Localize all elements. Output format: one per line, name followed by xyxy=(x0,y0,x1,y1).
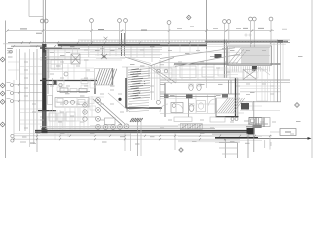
stair mid rail xyxy=(229,55,270,57)
dining table xyxy=(105,118,116,125)
left leader y84.5 xyxy=(14,84,42,86)
left leader y100.8 xyxy=(14,100,42,102)
left-bottom verticals xyxy=(47,96,92,130)
bottom extra horizontals xyxy=(14,126,240,142)
left strip marks xyxy=(7,48,17,80)
stair shaft inner xyxy=(229,47,270,64)
upper corridor line y82.5 xyxy=(160,82,290,84)
left grid bubbles xyxy=(11,84,14,143)
stair treads xyxy=(242,47,268,64)
interior line y60 xyxy=(40,59,122,61)
insulation hatch shaft xyxy=(127,65,152,112)
left diamond text xyxy=(7,83,11,99)
understair hatch xyxy=(230,66,270,71)
left wall verticals xyxy=(20,49,38,152)
top wall hatch ticks xyxy=(58,44,207,46)
column dot xyxy=(118,98,121,101)
lower stair diagonal hatch xyxy=(216,98,245,113)
left-bottom fixtures xyxy=(49,108,80,130)
tick marks pass2 xyxy=(18,41,256,140)
bottom line y127 xyxy=(40,126,258,128)
level marker top xyxy=(187,15,191,19)
texture below shaft xyxy=(129,100,149,112)
cluster extras xyxy=(248,118,268,128)
door arc xyxy=(160,104,168,112)
long vertical x248 xyxy=(247,135,249,158)
interior line y62.5 xyxy=(160,62,238,64)
shaft below xyxy=(257,68,271,102)
terrace line y40 xyxy=(78,39,290,41)
section arrow line xyxy=(258,137,312,140)
poche hatch patch xyxy=(130,118,143,122)
fixture row y90 xyxy=(57,88,90,93)
dark blob left xyxy=(54,80,57,85)
fan symbol xyxy=(101,54,107,59)
left dim vertical xyxy=(13,80,15,141)
dark verticals x236 xyxy=(236,78,238,117)
dimension text marks xyxy=(8,47,303,144)
schedule table verticals xyxy=(225,139,237,158)
upper mid faint verticals xyxy=(180,44,198,52)
X-braced square A xyxy=(71,54,80,64)
interior L-wall xyxy=(126,78,162,108)
sink clutter xyxy=(88,97,104,110)
dim ticks top xyxy=(6,29,272,31)
dark wall y80.5 xyxy=(40,80,97,82)
mid room verticals xyxy=(174,65,230,81)
bottom dim line y139.2 xyxy=(14,138,240,140)
bottom line y136.5 xyxy=(178,136,262,138)
cabinet rect xyxy=(218,68,228,76)
bottom level diamond xyxy=(179,148,183,152)
right wall verticals x278 xyxy=(274,40,283,102)
long diagonal mid xyxy=(153,68,177,84)
left room horizontals xyxy=(20,59,42,109)
facade line y43.8 xyxy=(3,43,90,45)
sheet border left xyxy=(5,21,7,159)
top small cross symbol xyxy=(104,37,108,40)
interior line y50 xyxy=(47,49,160,51)
stair wall pair xyxy=(224,40,226,79)
bottom heavy wall right xyxy=(215,137,258,139)
wall vertical x48 xyxy=(47,49,49,94)
grid bubbles top xyxy=(40,17,273,24)
corridor double line y96.5 xyxy=(160,96,216,98)
bed rect 1 xyxy=(180,66,196,78)
bottom light lines extra xyxy=(20,126,240,142)
stair dark block xyxy=(252,66,257,71)
kitchen small rects xyxy=(48,96,64,105)
bath door arcs xyxy=(176,99,215,111)
schedule table horizontals xyxy=(219,143,238,155)
upper verticals xyxy=(89,33,176,100)
wardrobe rect mid xyxy=(149,68,172,78)
table mid-bottom 1 xyxy=(174,117,192,122)
bottom verticals xyxy=(125,101,270,156)
bottom-left text xyxy=(30,143,36,145)
top-left dark wall xyxy=(40,47,80,49)
bed rect 2 xyxy=(202,67,214,77)
detail box leader xyxy=(265,140,271,148)
dim text top xyxy=(20,28,287,33)
pantry vertical xyxy=(52,78,54,110)
bottom dim line y135.8 xyxy=(14,135,272,137)
grid axis vertical x=206 xyxy=(206,0,208,88)
left interior verticals xyxy=(49,48,78,78)
table mid-bottom 2 xyxy=(210,117,225,122)
left leader y92.5 xyxy=(14,92,42,94)
dining chairs row xyxy=(103,124,129,129)
dim tick marks xyxy=(13,42,282,141)
top facade dark band xyxy=(58,44,207,46)
fixture circle xyxy=(64,72,68,76)
bottom right extra cluster xyxy=(253,118,271,129)
top dimension line xyxy=(8,30,275,32)
bottom wall mid line y134 xyxy=(212,133,248,135)
small circles mid-bottom xyxy=(231,118,238,121)
wc lower xyxy=(189,104,194,112)
wc pair top xyxy=(189,84,201,91)
bath partitions2 xyxy=(160,94,216,114)
left-bottom extra verticals xyxy=(62,117,72,130)
upper mid verticals xyxy=(98,46,152,62)
elevator X square xyxy=(243,70,257,80)
sheet border right xyxy=(311,0,313,158)
dark seg y84.5 xyxy=(47,84,57,86)
bottom line y125 xyxy=(178,124,262,126)
dark cap y116.7 xyxy=(216,98,239,117)
room mid-left lines xyxy=(47,60,94,80)
bath partition verticals xyxy=(189,94,208,117)
detail box right xyxy=(270,129,296,136)
chair dots xyxy=(97,99,127,127)
dark vertical x95 xyxy=(94,80,96,94)
upper light horizontals xyxy=(45,44,286,58)
funnel diagonals xyxy=(125,57,174,66)
bottom heavy wall xyxy=(35,131,250,133)
pair verticals x229 xyxy=(229,80,232,94)
upper extra horizontals xyxy=(95,55,160,58)
dark vertical x112.5 xyxy=(112,68,114,85)
kitchen-bottom verticals xyxy=(50,108,78,130)
terrace strip ticks xyxy=(82,40,286,42)
pantry fixtures xyxy=(57,80,64,91)
stair run diagonals xyxy=(229,48,247,65)
basin lower xyxy=(197,101,206,112)
radiator xyxy=(180,124,203,130)
bottom line y140.5 xyxy=(178,140,262,142)
fixtures near stair xyxy=(81,79,95,121)
top facade dark band right xyxy=(205,40,288,42)
dark block mid xyxy=(222,94,228,98)
mid stair diagonal treads xyxy=(94,69,117,85)
right rooms light lines xyxy=(240,80,281,102)
left edge diamonds xyxy=(0,57,5,127)
fixture circle right xyxy=(156,100,160,104)
room line y117 xyxy=(40,116,96,118)
below-wall stubs xyxy=(55,133,68,140)
dining chairs column xyxy=(96,98,101,130)
lower stair bounds xyxy=(216,98,244,113)
interior line y52.2 xyxy=(47,51,240,53)
right room line y91.8 xyxy=(240,91,281,93)
shower box xyxy=(171,103,183,113)
shaft verticals right xyxy=(155,65,158,100)
right wing step lines xyxy=(240,102,280,111)
right dark blob xyxy=(241,103,249,110)
right wall poche xyxy=(278,40,284,43)
stair shaft outer xyxy=(228,46,272,65)
right level diamond xyxy=(295,103,300,108)
bottom wall blob xyxy=(247,128,255,135)
kitchen counter xyxy=(55,98,89,108)
bath extra lines xyxy=(164,95,196,99)
facade line y42.5 xyxy=(8,42,290,44)
grid bubble stems xyxy=(92,21,272,80)
interior line y54.5 xyxy=(80,54,162,56)
dark rect bath xyxy=(186,95,193,99)
second funnel diagonal xyxy=(148,67,172,85)
dark vertical x165 xyxy=(164,83,166,117)
stair dark patch xyxy=(215,54,222,58)
upper corridor line y80 xyxy=(160,79,290,81)
tiny circles topright xyxy=(245,34,251,36)
ramp diagonals xyxy=(93,93,130,125)
text marks pass2 xyxy=(24,49,294,136)
main heavy wall vertical x44 xyxy=(42,44,48,134)
mid-left horizontal y59 xyxy=(45,58,80,60)
kitchen sinks xyxy=(64,100,85,105)
heavy wall cap xyxy=(38,110,56,112)
corridor line y94 xyxy=(160,93,240,95)
mid room horizontals xyxy=(162,70,238,78)
bottomright dark rects xyxy=(244,118,262,129)
dimension line y46.2 xyxy=(11,45,42,47)
interior line y57.5 xyxy=(40,57,160,59)
mid stair boundary xyxy=(95,69,113,86)
long diagonal upper xyxy=(160,48,240,67)
top-left shaft rectangle xyxy=(29,0,43,17)
right room line y101.8 xyxy=(240,101,281,103)
left room horizontals2 xyxy=(8,62,42,124)
interior line y67 xyxy=(122,66,176,68)
room box A xyxy=(51,60,63,69)
understair beds xyxy=(230,72,258,78)
mid dark wall y64 xyxy=(174,63,281,65)
grid axis double vertical x=43 xyxy=(43,0,45,44)
top text dashes right xyxy=(177,27,241,29)
